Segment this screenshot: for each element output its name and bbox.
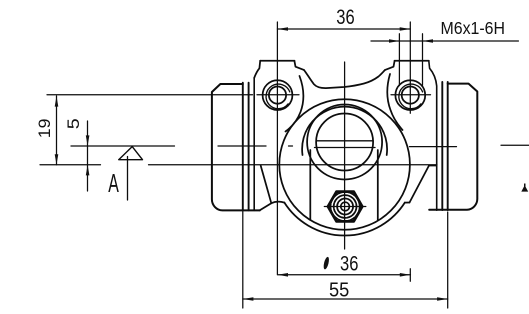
boss arc [302, 107, 387, 155]
dimension 5 line [87, 121, 89, 191]
bleeder ring 1 [334, 195, 357, 218]
bore circle [316, 114, 373, 171]
svg-text:36: 36 [340, 253, 358, 276]
hex inscribed circle [331, 192, 360, 221]
thread hole side lines M6 [399, 34, 422, 86]
arrow 55 right [437, 297, 448, 301]
bleeder ring 3 [341, 202, 350, 211]
arrow M6 left [389, 39, 399, 43]
wire left hole vertical centerline [276, 22, 278, 274]
armpit curve left [286, 76, 304, 132]
wire body vertical centerline [344, 62, 346, 249]
arrow 5 lower [86, 165, 90, 176]
left web diagonal [261, 166, 272, 204]
right boot lip lines [442, 82, 447, 210]
right ear tab top [395, 60, 429, 62]
datum stem [127, 157, 129, 201]
right ear hole outer [395, 80, 425, 110]
left lobe outline [254, 61, 260, 78]
arrow 55 left [243, 297, 254, 301]
saddle outline [304, 70, 385, 88]
left ear hole thread arc [266, 84, 290, 109]
right barrel underside [429, 165, 437, 167]
flange circle [279, 99, 410, 230]
arrow M6 right [423, 39, 434, 43]
left web blend [271, 202, 284, 204]
dimension dia36 line [277, 274, 410, 276]
wire left hole centerline horizontal [47, 94, 299, 96]
dimension 36 top line [277, 28, 410, 30]
arrow dim36 left [277, 27, 288, 31]
boss side right [377, 150, 379, 220]
right ear hole inner [402, 87, 419, 104]
svg-text:19: 19 [36, 119, 54, 139]
right web blend [405, 202, 410, 204]
arrow dia36 right [400, 273, 411, 277]
piston chord lower [315, 147, 376, 149]
dimension 55 extension lines [243, 212, 448, 309]
arrow 5 upper [86, 135, 90, 146]
svg-text:5: 5 [65, 118, 83, 129]
arrow 19 top [55, 96, 59, 107]
right lobe outline and face [429, 61, 437, 210]
flange rim arc [284, 203, 404, 236]
label dia symbol [323, 256, 330, 269]
boss side left [309, 150, 311, 220]
svg-text:36: 36 [336, 6, 354, 29]
left boot outline [212, 84, 260, 210]
left body face [253, 78, 255, 210]
datum triangle [119, 147, 143, 160]
right boot outline [429, 84, 477, 210]
left ear tab top [260, 60, 294, 62]
wire main axis centerline [40, 164, 437, 166]
left boot lip lines [243, 83, 249, 211]
left ear hole inner [269, 87, 286, 104]
right ear hole thread arc [399, 84, 423, 109]
dimension M6 leader line [371, 40, 518, 42]
wire right hole centerline horizontal [391, 94, 431, 96]
left tab right side [294, 61, 304, 70]
piston chord upper [316, 140, 373, 142]
hex bleeder plug [328, 192, 362, 222]
counterbore circle [307, 105, 382, 180]
wire bore axis centerline [71, 145, 529, 146]
arrow dia36 left [277, 273, 288, 277]
bleeder ring 2 [337, 199, 353, 215]
wire hex plug horizontal centerline [324, 206, 366, 208]
right web diagonal [410, 166, 430, 203]
arrow 19 bottom [55, 154, 59, 165]
svg-text:M6x1-6H: M6x1-6H [441, 18, 506, 38]
wire right hole vertical centerline [409, 22, 411, 281]
armpit curve right [387, 74, 402, 130]
dimension 55 line [243, 298, 448, 300]
left ear hole outer [263, 80, 293, 110]
arrow dim36 right [400, 27, 411, 31]
right tab left side [385, 61, 395, 70]
svg-text:A: A [108, 170, 119, 198]
left web lower line [260, 203, 272, 210]
dimension 19 line [56, 96, 58, 165]
edge mark arrow [521, 185, 528, 191]
svg-text:55: 55 [329, 280, 349, 302]
